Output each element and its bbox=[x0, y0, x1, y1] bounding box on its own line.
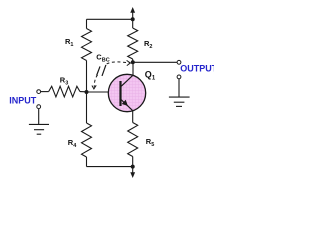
dashed feedback path (capacitor to collector, arrow) bbox=[107, 60, 131, 65]
label CBC bbox=[96, 53, 109, 64]
resistor R2 bbox=[128, 19, 138, 62]
svg-text:OUTPUT: OUTPUT bbox=[180, 64, 214, 74]
input ground terminal circle bbox=[37, 105, 41, 109]
wire output bbox=[133, 61, 178, 63]
bottom supply arrow (down) bbox=[130, 167, 135, 178]
label Q1 bbox=[145, 70, 156, 82]
label R5 bbox=[146, 137, 154, 148]
input terminal circle bbox=[37, 90, 41, 94]
wire input to R3 bbox=[41, 91, 49, 93]
svg-text:INPUT: INPUT bbox=[9, 96, 37, 106]
resistor R5 bbox=[128, 111, 138, 167]
node collector junction bbox=[131, 60, 135, 64]
transistor Q1 bbox=[108, 62, 145, 111]
label R1 bbox=[65, 37, 73, 48]
node Vcc junction bbox=[131, 17, 135, 21]
ground (output) bbox=[169, 79, 190, 107]
capacitor CBC plates bbox=[97, 65, 106, 76]
svg-text:R3: R3 bbox=[60, 76, 68, 87]
wire base bbox=[87, 91, 120, 93]
label INPUT bbox=[9, 96, 37, 106]
svg-text:R1: R1 bbox=[65, 37, 73, 48]
label OUTPUT bbox=[180, 64, 218, 74]
svg-text:Q1: Q1 bbox=[145, 70, 156, 82]
wire top rail bbox=[87, 18, 133, 20]
label R3 bbox=[60, 76, 68, 87]
label R2 bbox=[144, 39, 152, 50]
wire bottom rail bbox=[87, 166, 133, 168]
output ground terminal circle bbox=[177, 75, 181, 79]
resistor R4 bbox=[82, 92, 92, 167]
label R4 bbox=[68, 138, 77, 149]
Vcc supply arrow bbox=[130, 7, 135, 19]
ground (input) bbox=[29, 109, 49, 135]
node bottom junction bbox=[131, 165, 135, 169]
resistor R3 bbox=[49, 86, 87, 97]
resistor R1 bbox=[82, 19, 92, 92]
dashed feedback path (capacitor to base, arrow) bbox=[92, 75, 98, 89]
output terminal circle bbox=[177, 60, 181, 64]
svg-text:R2: R2 bbox=[144, 39, 152, 50]
svg-text:R5: R5 bbox=[146, 137, 154, 148]
svg-text:CBC: CBC bbox=[96, 53, 109, 64]
node base junction bbox=[85, 90, 89, 94]
svg-text:R4: R4 bbox=[68, 138, 77, 149]
